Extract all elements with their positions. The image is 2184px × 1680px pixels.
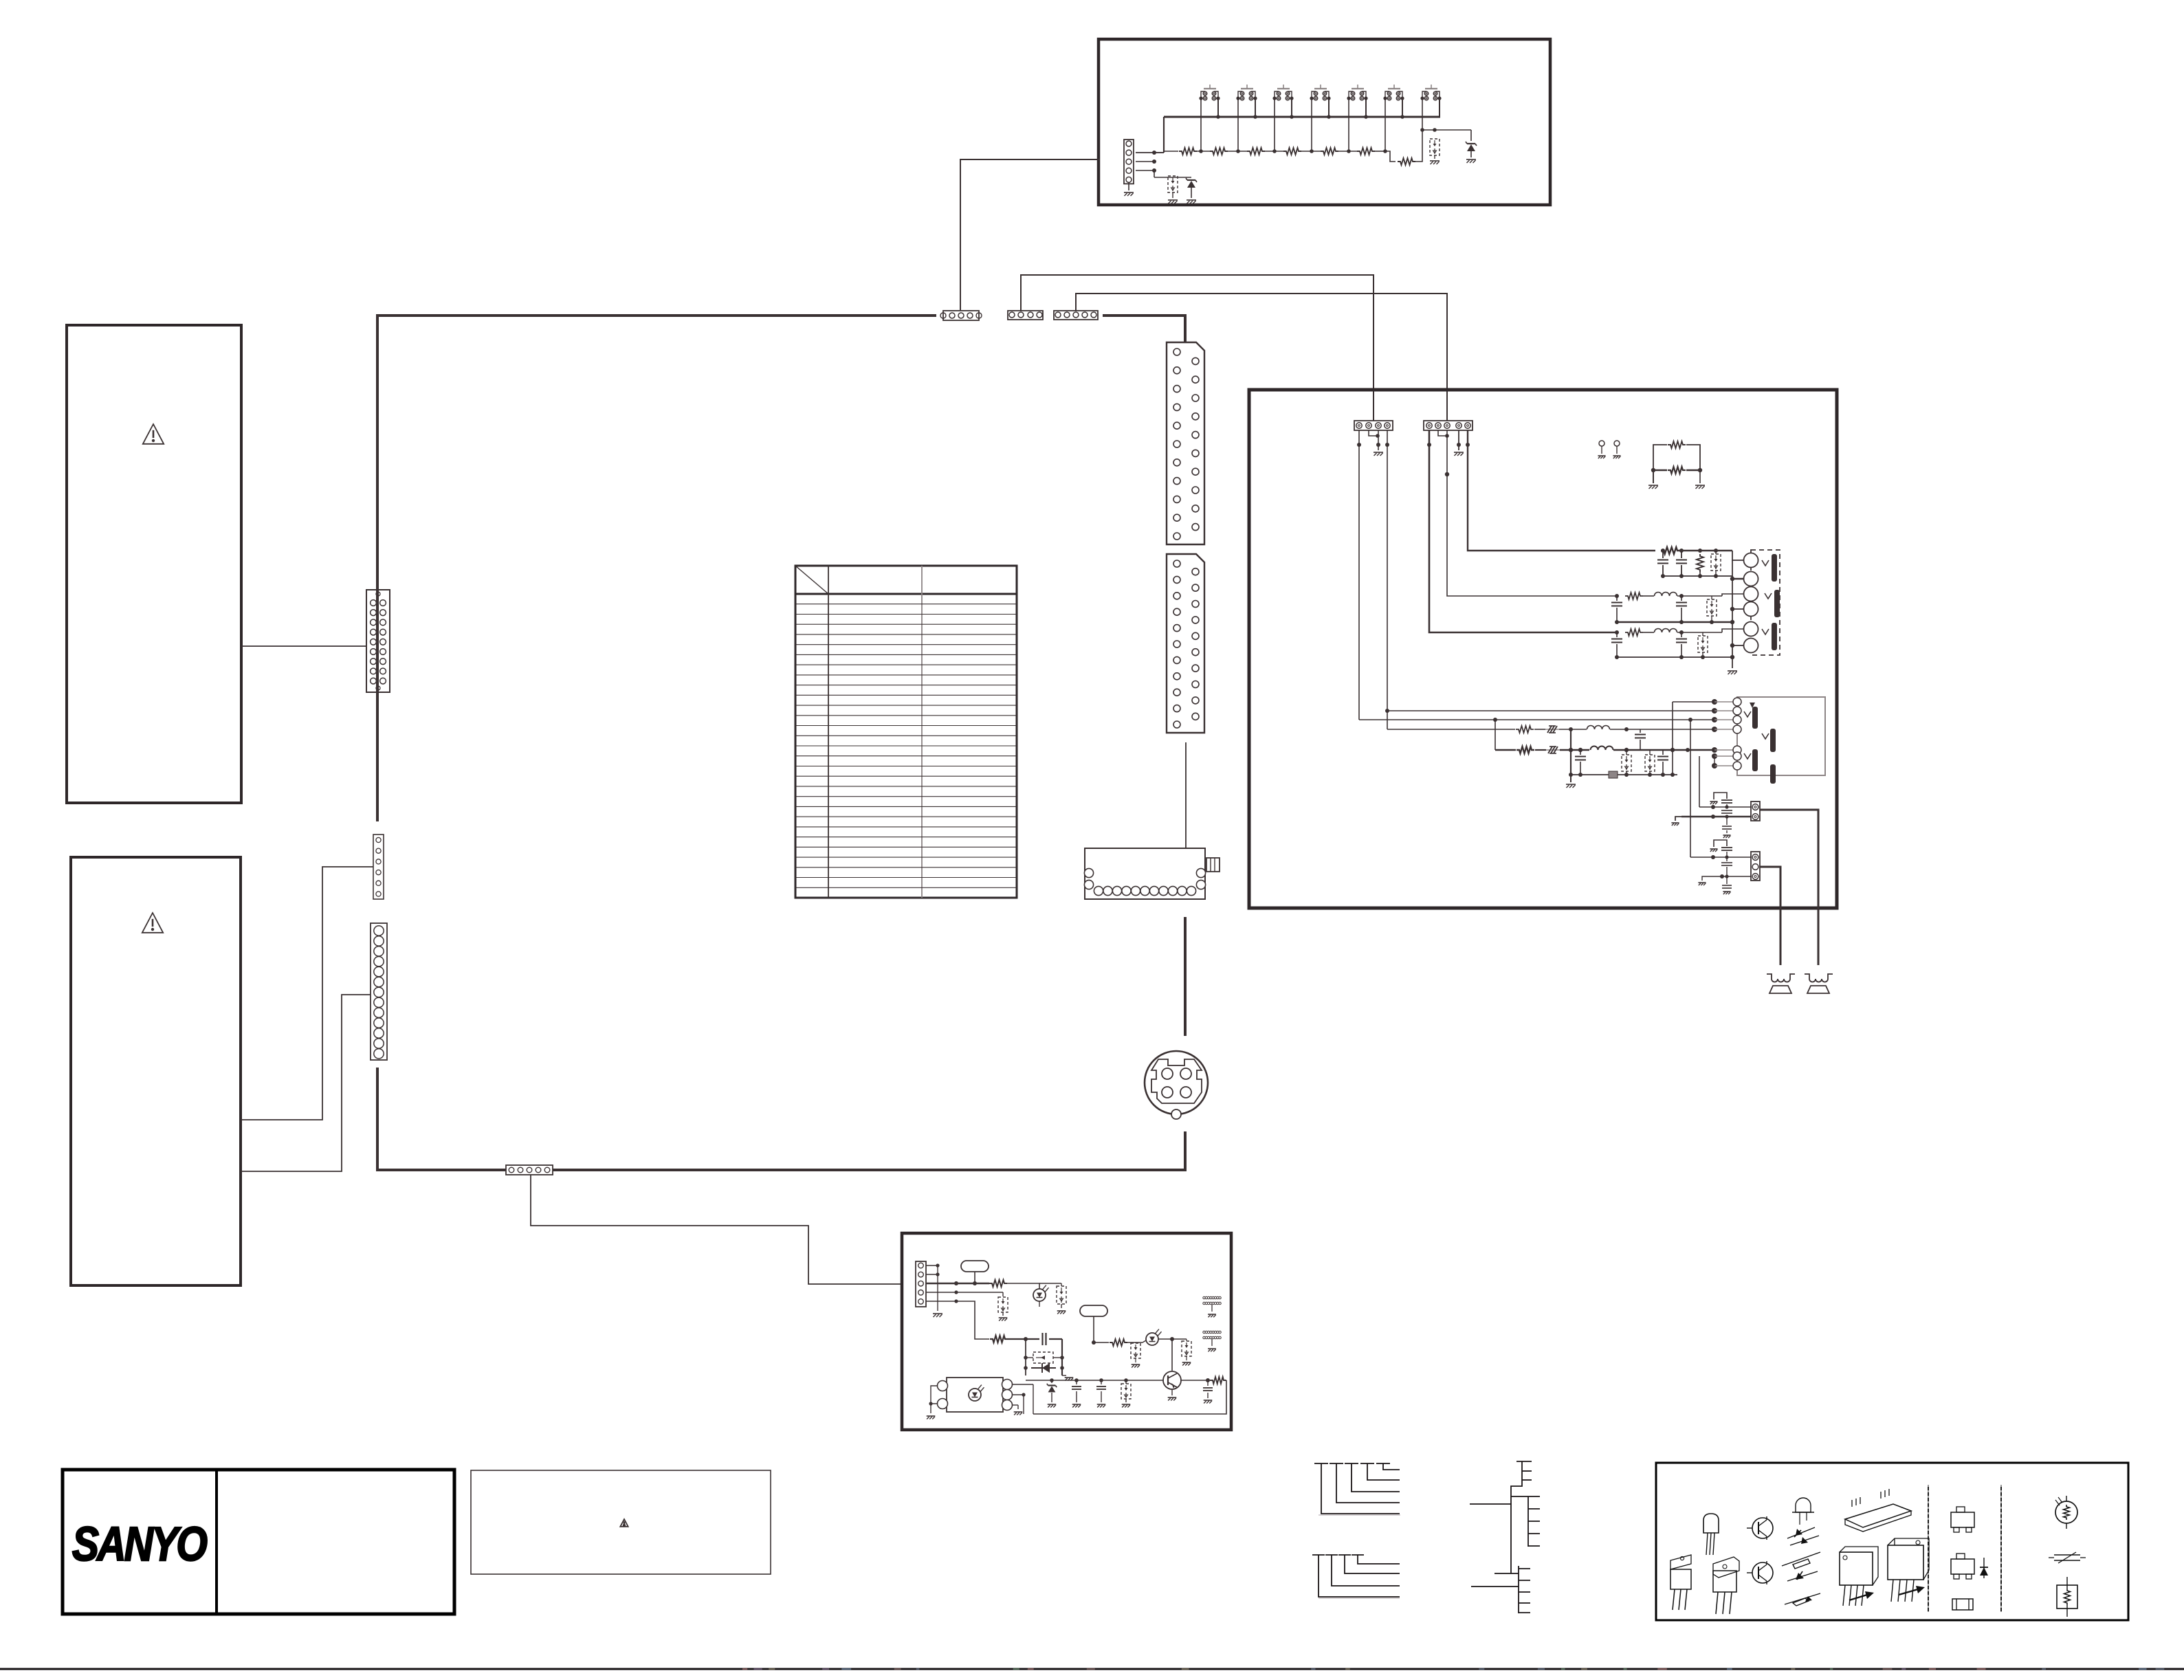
header CN B 5-pin [1424, 421, 1472, 430]
diode in loop [1031, 1367, 1056, 1369]
cap [1580, 750, 1581, 755]
resistor (key ladder) [1247, 148, 1265, 155]
wire jog to low rail [1385, 151, 1396, 162]
cap between rows [1640, 729, 1641, 733]
axial diode [1782, 1552, 1820, 1566]
cap on rail [1076, 1380, 1077, 1384]
table row line [795, 644, 1017, 645]
receiver right wires [1012, 1384, 1033, 1385]
resistor R end [1398, 158, 1415, 165]
IR receiver block [947, 1378, 1003, 1412]
wire to jack3 tip [1722, 629, 1744, 632]
RCA jack block dashed [1751, 550, 1780, 655]
ground collector [1732, 560, 1733, 668]
wire switch right leg [1255, 98, 1256, 117]
speaker wire left [1760, 867, 1780, 965]
dashed device [1131, 1343, 1140, 1358]
diode symbol [1787, 1571, 1818, 1581]
thick bus lower [377, 1068, 506, 1170]
transistor symbol 1 [1752, 1518, 1773, 1538]
zener near keypad connector [1173, 177, 1191, 178]
dashed device [1622, 755, 1631, 771]
resistor (key ladder) [1357, 148, 1375, 155]
dot grid 2 [1203, 1331, 1205, 1333]
wire side board to 6-pin CN [241, 867, 373, 1120]
TO-220 package [1670, 1555, 1691, 1569]
harness branch [1338, 1554, 1351, 1556]
wire above S-video [1184, 917, 1187, 1036]
connector CN plug 3-pin with tabs [943, 311, 979, 320]
block pin bead [1712, 717, 1717, 722]
line A1 to headphone block [1359, 719, 1714, 720]
table row line [795, 715, 1017, 716]
dashed device near keypad connector [1154, 170, 1155, 177]
pin strip connector 1 [1167, 342, 1204, 544]
line to headphone top [1673, 701, 1714, 703]
cap [1662, 750, 1664, 755]
line audio L thick [1495, 749, 1516, 751]
connector CN keypad 5-pin [1124, 140, 1134, 184]
osc loop [1008, 1338, 1026, 1340]
wire node row [1422, 129, 1471, 131]
out1 top row [1699, 806, 1751, 808]
table row line [795, 837, 1017, 838]
wire to jack3 ring [1732, 645, 1744, 646]
cap right [1207, 1380, 1209, 1386]
wire switch right leg [1291, 98, 1292, 117]
SIP with heatsink 1 [1840, 1552, 1873, 1585]
resonator pill [961, 1261, 989, 1272]
RCA jack terminal [1744, 572, 1758, 586]
dot grid 1 [1203, 1296, 1205, 1298]
photo device dashed [1715, 551, 1717, 554]
pin assignment table [795, 566, 1017, 898]
resistor video out [1661, 547, 1680, 554]
ground under keypad connector [1128, 182, 1129, 190]
wire to jack1 ring [1732, 576, 1744, 579]
header CN A 4-pin [1354, 421, 1393, 430]
table row line [795, 705, 1017, 706]
resistor network lower R [1668, 467, 1686, 474]
wire switch right leg [1328, 98, 1330, 117]
wire B2 jog [1438, 430, 1446, 436]
vertical to node rail [1672, 702, 1673, 775]
connector comb lower [1494, 1573, 1519, 1574]
wire tap to IR board [531, 1175, 902, 1284]
wire pin3 thick [926, 1283, 989, 1284]
resistor vertical [1697, 554, 1703, 572]
wire switch left leg [1237, 98, 1239, 151]
push switch S3 [1277, 88, 1290, 89]
line audio R in [1387, 729, 1515, 730]
RCA jack terminal [1744, 553, 1758, 568]
transistor [1171, 1339, 1173, 1371]
thermistor [2057, 1585, 2077, 1609]
resistor [1516, 726, 1534, 733]
connector CN 5-pin vertical [916, 1261, 926, 1307]
connector OUT2 3-pin [1751, 852, 1760, 881]
rail row2 [1617, 621, 1732, 623]
table row line [795, 664, 1017, 665]
jumper chip [1609, 771, 1618, 778]
wire to R [1094, 1342, 1109, 1343]
table row line [795, 623, 1017, 625]
connector CN 4-pin [1008, 311, 1043, 320]
front panel box (caution) [67, 325, 241, 803]
side board box (caution) [71, 857, 241, 1285]
wire A3 to ground [1378, 430, 1379, 450]
wire B1 thick [1429, 430, 1617, 632]
connector CN 5-pin inline [506, 1165, 553, 1175]
table row line [795, 755, 1017, 757]
wire B5 [1468, 430, 1655, 551]
harness branch [1360, 1463, 1374, 1464]
warning triangle [143, 424, 164, 444]
receiver left wires [931, 1386, 938, 1404]
cap mid out2 [1726, 857, 1728, 861]
cap below out1 [1726, 818, 1728, 825]
table row line [795, 634, 1017, 635]
photo device dashed [1698, 636, 1708, 652]
ground [1570, 775, 1571, 782]
table row line [795, 725, 1017, 727]
TO-3P package [1713, 1557, 1739, 1578]
dashed on rail [1121, 1384, 1131, 1399]
wire A4 drop [1387, 711, 1388, 729]
table row line [795, 766, 1017, 767]
LED 2 [1146, 1333, 1158, 1345]
wire between strip and IC connector [1185, 742, 1187, 848]
table row line [795, 614, 1017, 615]
wire A1 long [1358, 430, 1360, 720]
pin strip connector 2 [1167, 554, 1204, 733]
SANYO logo [72, 1517, 207, 1571]
wire pin5 [926, 1301, 989, 1339]
harness branch [1325, 1554, 1338, 1556]
table row line [795, 745, 1017, 747]
connector tab [1206, 858, 1220, 872]
push switch S5 [1352, 88, 1364, 89]
LED symbol slash [1787, 1527, 1815, 1538]
power IC flat package [1845, 1504, 1911, 1527]
dashed device horizontal [1033, 1352, 1053, 1363]
speaker symbol [1805, 974, 1833, 982]
rail row3 [1617, 656, 1732, 658]
warning triangle [142, 913, 163, 933]
table row line [795, 775, 1017, 777]
bus wire across switch groups [1164, 116, 1440, 118]
harness branch [1345, 1463, 1358, 1464]
table row line [795, 856, 1017, 858]
table row line [795, 806, 1017, 807]
harness branch [1352, 1554, 1364, 1556]
jack internals [1750, 703, 1755, 708]
wire A4 long [1387, 430, 1388, 711]
resistor network loop [1653, 445, 1667, 470]
harness branch [1314, 1463, 1328, 1464]
wire switch left leg [1348, 98, 1349, 151]
vertical x2285 [1570, 729, 1571, 775]
table row line [795, 816, 1017, 817]
wire to node [1415, 130, 1422, 162]
cap on top [1026, 1338, 1039, 1340]
ground [1062, 1375, 1066, 1376]
legend separator dotted 2 [2000, 1485, 2002, 1612]
block pin bead [1712, 727, 1717, 732]
RCA jack terminal [1744, 639, 1758, 653]
wire switch left leg [1274, 98, 1275, 151]
wire front panel to CN [241, 645, 366, 647]
out2 lower row [1708, 876, 1751, 877]
table row line [795, 654, 1017, 655]
wire conn 5-pin to AV board header [1076, 294, 1447, 421]
wire switch left leg [1200, 98, 1202, 151]
connector CN 5-pin [1054, 311, 1098, 320]
capacitor [1681, 551, 1682, 558]
wire to LED [1007, 1283, 1039, 1289]
wire keypad pin4 [1136, 170, 1154, 171]
wire to jack2 ring [1732, 608, 1744, 610]
table row line [795, 685, 1017, 686]
zener diode [1470, 130, 1472, 141]
push switch S4 [1314, 88, 1327, 89]
audio L filter [1615, 594, 1619, 598]
wire keypad pin3 [1136, 161, 1154, 162]
push switch S2 [1241, 88, 1253, 89]
resonator pill 2 [1080, 1305, 1107, 1316]
harness underline gray 2 [1319, 1598, 1400, 1599]
dashed device right [1182, 1341, 1191, 1356]
vertical from 1100 [1699, 756, 1700, 807]
SIP with heatsink 2 [1888, 1545, 1923, 1580]
board-in connector (bottom pins) [1085, 848, 1205, 899]
table row line [795, 826, 1017, 828]
speaker wire right [1760, 810, 1818, 965]
capacitor [1662, 551, 1664, 558]
title block [63, 1470, 454, 1614]
wire switch left leg [1385, 98, 1386, 151]
table row line [795, 604, 1017, 605]
resistor [989, 1280, 1007, 1287]
chip component [1952, 1599, 1973, 1610]
diode sym small [1983, 1558, 1985, 1578]
wire thick to pin strips [1103, 314, 1185, 317]
connector CN 6-pin [373, 835, 384, 899]
ground [1434, 155, 1435, 159]
thick out1 row [1681, 816, 1751, 818]
out2 top row [1690, 856, 1751, 858]
wire switch right leg [1402, 98, 1403, 117]
AV jack board box [1249, 390, 1837, 908]
main thick bus wire [377, 316, 936, 821]
SOT-23 package 2 [1951, 1559, 1974, 1574]
resistor (key ladder) [1179, 148, 1197, 155]
block pin bead [1712, 708, 1717, 714]
block pin bead [1712, 699, 1717, 705]
ferrite [1545, 729, 1559, 730]
wire switch left leg [1422, 98, 1423, 130]
thick bus to S-video [553, 1169, 1187, 1171]
bottom node rail [1571, 774, 1677, 775]
comb lower left stub [1471, 1586, 1519, 1587]
component legend box [1656, 1463, 2128, 1620]
photoresistor [2055, 1501, 2077, 1523]
photo device dashed [1707, 599, 1717, 616]
harness branch [1376, 1463, 1390, 1464]
line A4 to headphone block [1387, 710, 1714, 711]
resistor [990, 1336, 1008, 1342]
ground bracket above out1 [1714, 793, 1727, 799]
audio R filter [1615, 630, 1619, 634]
block pin bead [1712, 763, 1717, 769]
dashed device [1645, 755, 1655, 771]
resistor (key ladder) [1283, 148, 1301, 155]
RCA jack terminal [1744, 602, 1758, 617]
wire pins 1-2 to ground [926, 1265, 938, 1266]
wire switch left leg [1311, 98, 1312, 151]
push switch S7 [1425, 88, 1437, 89]
block pin bead [1712, 753, 1717, 759]
wire A2 jog [1369, 430, 1377, 436]
test point circles [1599, 441, 1604, 446]
cap below out2 [1726, 878, 1728, 884]
harness branch [1312, 1554, 1325, 1556]
block pin bead [1712, 747, 1717, 753]
wire to jack2 tip [1722, 594, 1744, 596]
wire to jack1 tip [1732, 551, 1744, 560]
connector comb right [1511, 1496, 1528, 1497]
table row line [795, 846, 1017, 848]
resistor (key ladder) [1210, 148, 1228, 155]
connector CN 13-pin [371, 923, 387, 1060]
block internal wires [1714, 756, 1715, 766]
table row line [795, 694, 1017, 696]
cap above out1 [1721, 799, 1732, 801]
jack contact marks [1762, 560, 1769, 566]
legend separator dotted [1928, 1485, 1929, 1612]
table row line [795, 735, 1017, 736]
SOT-23 package [1951, 1512, 1974, 1527]
IR/control sub-board box [902, 1233, 1231, 1430]
comb left stub [1470, 1503, 1511, 1505]
loop verticals [1025, 1339, 1026, 1375]
dashed device [1057, 1286, 1066, 1304]
coil [1571, 729, 1587, 730]
diode package small [1785, 1593, 1820, 1604]
note box [471, 1470, 771, 1574]
dashed device [1002, 1292, 1004, 1296]
table row line [795, 867, 1017, 868]
wire switch right leg [1365, 98, 1367, 117]
wire conn 4-pin to AV board header [1021, 275, 1374, 421]
wire bus riser [1163, 117, 1165, 153]
RCA jack terminal [1744, 587, 1758, 601]
photo device dashed box [1430, 139, 1440, 155]
page bottom rule [0, 1668, 2184, 1670]
cap above out2 [1721, 847, 1732, 848]
connector CN 2x9 [366, 590, 390, 692]
table row line [795, 674, 1017, 676]
table row line [795, 877, 1017, 878]
push switch S1 [1204, 88, 1216, 89]
LED legend [1796, 1498, 1811, 1512]
transistor emitter ground [1171, 1389, 1173, 1395]
S-video key pin [1171, 1109, 1181, 1119]
wire resistor chain rail [1154, 152, 1164, 153]
cap on rail 2 [1101, 1380, 1102, 1384]
table row line [795, 796, 1017, 797]
wire switch right leg [1439, 98, 1440, 117]
speaker symbol [1767, 974, 1795, 982]
harness branch [1330, 1463, 1343, 1464]
ground [1061, 1304, 1062, 1308]
ground bracket above out2 [1714, 840, 1727, 847]
wire keypad pin2 [1136, 152, 1164, 153]
wire B4 to ground [1458, 430, 1459, 450]
table row line [795, 887, 1017, 888]
TO-92 package [1703, 1514, 1719, 1533]
scan color speckles [742, 1668, 747, 1670]
connector OUT1 2-pin [1751, 802, 1760, 821]
transistor symbol 2 [1752, 1562, 1773, 1583]
S-video mini-DIN jack [1145, 1051, 1208, 1114]
LED indicator [1033, 1289, 1046, 1301]
harness underline gray [1319, 1514, 1400, 1516]
resistor (key ladder) [1321, 148, 1338, 155]
rail row1 [1663, 575, 1732, 577]
wire switch right leg [1217, 98, 1219, 117]
table header diagonal [795, 566, 828, 594]
wire drop to thick row [1494, 720, 1496, 750]
IR LED inside [969, 1389, 981, 1401]
zener on rail [1048, 1384, 1056, 1386]
push switch S6 [1388, 88, 1400, 89]
tiny warning [620, 1519, 628, 1527]
wire to right [1181, 1380, 1208, 1381]
wire LED2 node [1158, 1338, 1172, 1340]
svg-text:SANYO: SANYO [72, 1517, 207, 1571]
vertical from 1047 [1688, 718, 1692, 722]
fuse symbol [2054, 1554, 2080, 1556]
right edge wire [1033, 1380, 1226, 1414]
table row line [795, 786, 1017, 787]
headphone jack block [1737, 697, 1825, 775]
connector comb top [1511, 1461, 1522, 1573]
key/switch sub-board box [1099, 39, 1550, 205]
wire B3 [1446, 430, 1448, 436]
resistor right [1210, 1377, 1226, 1384]
wire pin4 [926, 1292, 1003, 1293]
wire from key board to main connector [960, 159, 1100, 310]
RCA jack terminal [1744, 622, 1758, 637]
title block divider [215, 1470, 218, 1614]
wire side board to 13-pin CN [241, 995, 371, 1171]
